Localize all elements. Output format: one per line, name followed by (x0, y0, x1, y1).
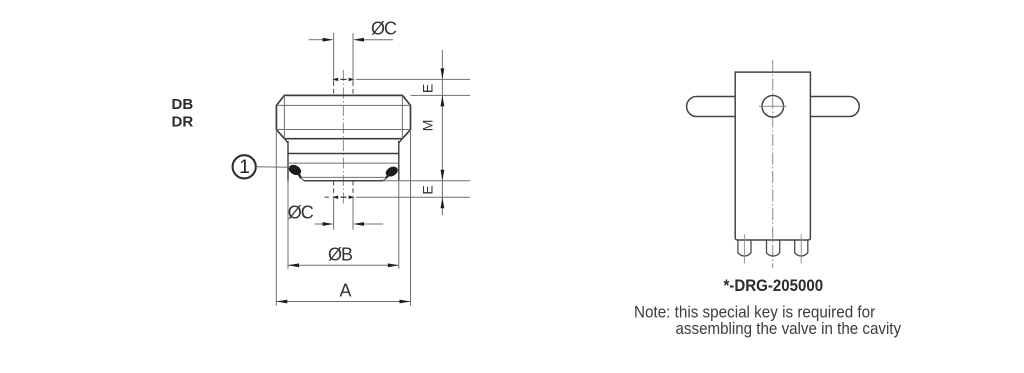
svg-text:*-DRG-205000: *-DRG-205000 (723, 277, 823, 295)
key pin left (738, 240, 751, 256)
dimension C bottom : extension lines (333, 196, 335, 230)
body side right (398, 141, 400, 181)
svg-text:ØC: ØC (288, 203, 314, 223)
hole bottom mark bottom (y=197.2) with extension to E dimension (325, 196, 470, 199)
dimension C top : dimension line and arrows (309, 38, 393, 42)
svg-text:DB: DB (172, 96, 194, 113)
body side left (287, 141, 289, 181)
key pin right (795, 240, 808, 256)
key centerline (772, 60, 774, 268)
hidden hole lines bottom (dashed) (333, 181, 335, 196)
svg-text:assembling the valve in the ca: assembling the valve in the cavity (676, 319, 902, 338)
cross hole horizontal centerline (759, 105, 787, 107)
dimension B : line and arrows (288, 263, 399, 267)
arrow up to line2 (441, 95, 445, 106)
groove lip line (301, 176, 387, 178)
centerline vertical (plug axis) (342, 70, 344, 205)
dimension C bottom : dimension line and arrows (315, 222, 384, 226)
hex head inner edge right (401, 95, 403, 138)
key cross hole (762, 96, 784, 118)
hex head inner edge bottom (276, 129, 410, 131)
body neck chamfer right (399, 139, 402, 143)
svg-text:E: E (420, 84, 436, 93)
pin centerline left (743, 234, 745, 263)
key body (735, 72, 810, 240)
balloon leader line (256, 166, 290, 168)
dimension A : extension lines (hex sides extended) (275, 130, 277, 306)
key pin middle (767, 240, 780, 256)
arrow down to line3 (441, 170, 445, 181)
body shoulder line (288, 153, 399, 155)
o-ring seal left (item 1) (287, 163, 303, 178)
dimension A : line and arrows (276, 300, 410, 304)
key handle left (687, 97, 736, 117)
hidden hole lines top (dashed) (333, 82, 335, 96)
svg-text:M: M (420, 120, 436, 132)
dimension C top : extension lines (333, 33, 335, 81)
groove chamfer left (299, 177, 304, 180)
dimension E/M/E vertical line at right (441, 50, 443, 215)
arrow down to line1 (441, 68, 445, 79)
groove chamfer right (383, 177, 388, 180)
balloon callout 1 (233, 155, 256, 178)
o-ring seal right (384, 165, 399, 179)
key handle right (810, 97, 859, 117)
hex head inner edge left (283, 95, 285, 138)
groove top line (288, 162, 399, 164)
hex head inner edge top (276, 104, 410, 106)
body neck chamfer left (285, 139, 288, 143)
pin centerline right (800, 234, 802, 263)
hole bottom mark top (y=79.4) with extension to E dimension (332, 78, 470, 81)
extension line from hex top face to E dimension (411, 94, 471, 96)
svg-text:E: E (420, 185, 436, 194)
arrow up to line4 (441, 197, 445, 208)
bottom face line (extends right as extension line for E) (304, 180, 384, 182)
svg-text:ØB: ØB (328, 245, 353, 265)
svg-text:DR: DR (172, 114, 194, 131)
svg-text:A: A (340, 281, 352, 301)
svg-text:ØC: ØC (371, 19, 397, 39)
svg-text:1: 1 (239, 156, 250, 178)
dimension B : extension lines (body sides extended) (287, 181, 289, 269)
hex head outline (276, 95, 410, 138)
